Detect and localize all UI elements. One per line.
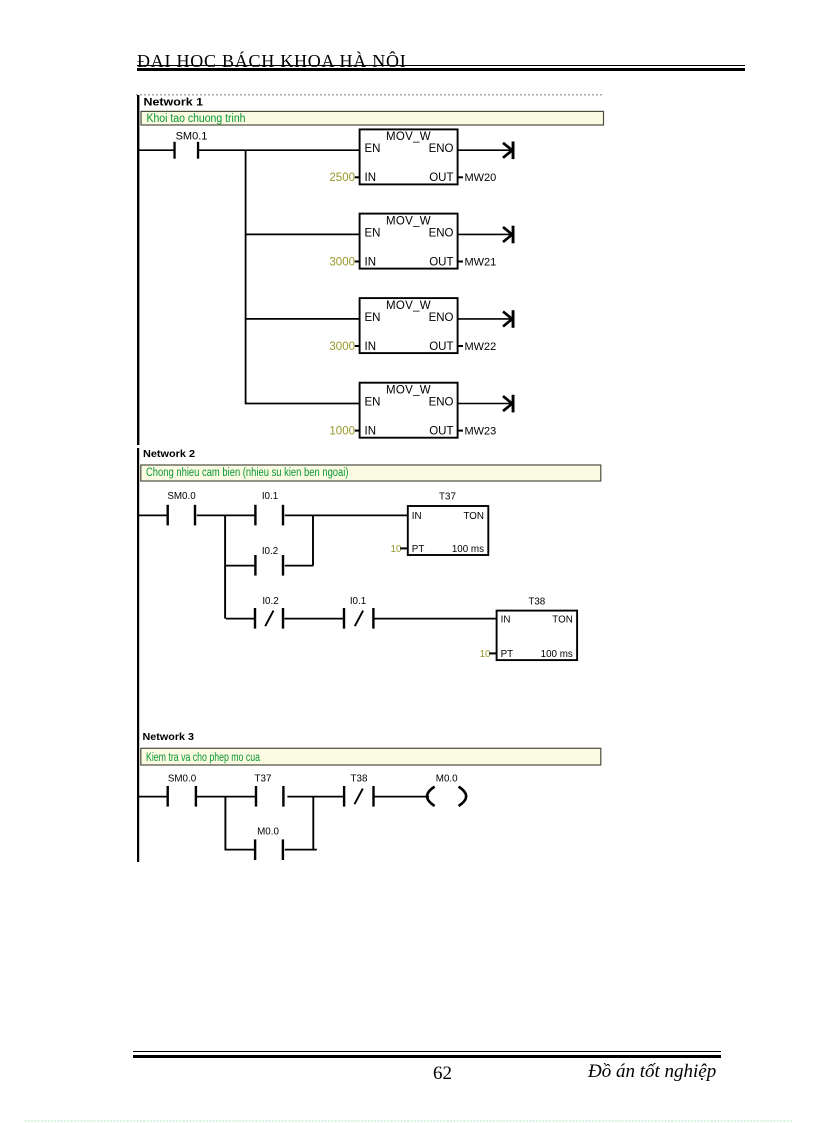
- contact T38 NC n3: [343, 786, 375, 807]
- branch vertical wire n2 left: [224, 515, 226, 618]
- svg-text:MW22: MW22: [465, 341, 497, 353]
- svg-text:OUT: OUT: [429, 341, 453, 353]
- branch vertical wire n3 right: [312, 797, 314, 850]
- wire contact T38 to coil M0.0: [374, 796, 429, 798]
- wire contact SM0.1 to MOV box 1: [199, 149, 360, 151]
- svg-text:I0.1: I0.1: [350, 596, 366, 607]
- wire rail to contact SM0.0 n3: [138, 796, 167, 798]
- contact SM0.0 n2: [167, 505, 197, 526]
- svg-text:I0.1: I0.1: [262, 491, 278, 502]
- svg-text:100 ms: 100 ms: [541, 649, 573, 660]
- svg-text:EN: EN: [365, 227, 381, 239]
- tick PT T38: [489, 652, 496, 654]
- svg-text:IN: IN: [365, 172, 377, 184]
- wire contact SM0.0 to contact I0.1: [197, 514, 256, 516]
- svg-text:EN: EN: [365, 312, 381, 324]
- bottom dotted separator: [0, 1114, 816, 1123]
- svg-text:Network 1: Network 1: [144, 97, 204, 109]
- contact I0.1 NC n2: [343, 608, 375, 629]
- svg-text:100 ms: 100 ms: [452, 544, 484, 555]
- svg-text:TON: TON: [552, 615, 573, 626]
- arrow terminator 2: [503, 226, 515, 244]
- branch vertical wire n3 left: [224, 797, 226, 850]
- svg-text:M0.0: M0.0: [257, 826, 279, 837]
- MOV_W box 1: [360, 129, 458, 184]
- svg-text:Network 3: Network 3: [143, 731, 195, 743]
- branch wire to MOV box 2: [245, 233, 360, 235]
- svg-text:M0.0: M0.0: [436, 774, 458, 785]
- contact M0.0 n3: [254, 839, 284, 860]
- svg-text:MOV_W: MOV_W: [386, 300, 431, 312]
- svg-text:MOV_W: MOV_W: [386, 215, 431, 227]
- svg-text:IN: IN: [501, 615, 511, 626]
- tick OUT box 2: [458, 261, 463, 263]
- svg-text:3000: 3000: [329, 256, 355, 268]
- wire branch to contact I0.2: [226, 565, 256, 567]
- timer box T38: [497, 611, 577, 661]
- svg-text:T37: T37: [255, 774, 272, 785]
- branch wire to MOV box 4: [245, 403, 360, 405]
- svg-text:ENO: ENO: [429, 227, 454, 239]
- svg-text:PT: PT: [501, 649, 514, 660]
- svg-text:Network 2: Network 2: [143, 448, 195, 460]
- svg-text:ENO: ENO: [429, 312, 454, 324]
- svg-text:Chong nhieu cam bien (nhieu su: Chong nhieu cam bien (nhieu su kien ben …: [146, 467, 349, 479]
- tick value to IN box 3: [355, 345, 360, 347]
- footer rule thick: [133, 1055, 721, 1059]
- svg-text:SM0.0: SM0.0: [167, 491, 196, 502]
- tick OUT box 1: [458, 176, 463, 178]
- arrow terminator 3: [503, 310, 515, 328]
- svg-text:MOV_W: MOV_W: [386, 131, 431, 143]
- contact T37 n3: [255, 786, 285, 807]
- header rule thick: [137, 68, 745, 71]
- network 1 block top dotted border: [136, 94, 604, 96]
- wire ENO box 3 to arrow: [458, 318, 511, 320]
- MOV_W box 3: [360, 298, 458, 353]
- branch vertical wire: [245, 150, 247, 403]
- contact SM0.1: [173, 142, 199, 159]
- wire contact T37 to contact T38: [287, 796, 344, 798]
- wire branch to contact M0.0 n3: [225, 849, 256, 851]
- svg-text:10: 10: [391, 544, 402, 555]
- contact I0.1 n2: [254, 505, 284, 526]
- svg-text:MW21: MW21: [465, 256, 497, 268]
- left power rail network 1: [137, 95, 139, 445]
- svg-text:T38: T38: [351, 774, 368, 785]
- parallel branch vertical wire n2 right: [312, 515, 314, 565]
- wire rail to contact SM0.1: [138, 149, 174, 151]
- svg-text:T37: T37: [439, 491, 456, 502]
- contact SM0.0 n3: [167, 786, 198, 807]
- contact I0.2 n2: [254, 555, 284, 576]
- tick OUT box 4: [458, 430, 463, 432]
- svg-text:SM0.0: SM0.0: [168, 774, 197, 785]
- svg-text:2500: 2500: [329, 172, 355, 184]
- svg-text:OUT: OUT: [429, 256, 453, 268]
- wire contact M0.0 to branch join n3: [285, 849, 317, 851]
- footer rule thin: [133, 1051, 721, 1052]
- MOV_W box 2: [360, 214, 458, 269]
- page number: [433, 1063, 452, 1085]
- arrow terminator 1: [503, 142, 515, 160]
- svg-text:EN: EN: [365, 397, 381, 409]
- wire branch to contact I0.2 NC: [226, 618, 254, 620]
- svg-text:IN: IN: [412, 511, 422, 522]
- wire ENO box 1 to arrow: [458, 149, 511, 151]
- svg-text:TON: TON: [463, 511, 484, 522]
- svg-text:MW23: MW23: [465, 426, 497, 438]
- header rule thin: [137, 65, 745, 66]
- svg-text:EN: EN: [365, 143, 381, 155]
- wire I0.2 NC to I0.1 NC: [284, 618, 343, 620]
- svg-text:SM0.1: SM0.1: [176, 131, 208, 143]
- tick value to IN box 1: [355, 176, 360, 178]
- svg-text:1000: 1000: [329, 426, 355, 438]
- left power rail networks 2 and 3: [137, 448, 139, 862]
- timer box T37: [408, 506, 489, 555]
- tick value to IN box 4: [355, 430, 360, 432]
- wire ENO box 4 to arrow: [458, 403, 511, 405]
- svg-text:T38: T38: [528, 597, 545, 608]
- svg-text:MW20: MW20: [465, 172, 497, 184]
- wire ENO box 2 to arrow: [458, 233, 511, 235]
- wire contact I0.2 to branch join: [285, 565, 313, 567]
- svg-text:IN: IN: [365, 341, 377, 353]
- svg-text:ENO: ENO: [429, 143, 454, 155]
- svg-text:I0.2: I0.2: [262, 596, 278, 607]
- svg-text:10: 10: [480, 649, 491, 660]
- svg-text:I0.2: I0.2: [262, 546, 278, 557]
- wire I0.1 NC to timer T38: [374, 618, 497, 620]
- svg-text:MOV_W: MOV_W: [386, 385, 431, 397]
- wire rail to contact SM0.0 n2: [138, 514, 167, 516]
- tick PT T37: [400, 547, 408, 549]
- branch wire to MOV box 3: [245, 318, 360, 320]
- svg-text:IN: IN: [365, 256, 377, 268]
- svg-text:OUT: OUT: [429, 172, 453, 184]
- network 1 comment bar: [141, 111, 604, 125]
- tick OUT box 3: [458, 345, 463, 347]
- tick value to IN box 2: [355, 261, 360, 263]
- wire contact SM0.0 to contact T37: [197, 796, 256, 798]
- contact I0.2 NC n2: [254, 608, 284, 629]
- svg-text:OUT: OUT: [429, 426, 453, 438]
- arrow terminator 4: [503, 395, 515, 413]
- output coil M0.0: [427, 787, 466, 806]
- svg-text:PT: PT: [412, 544, 425, 555]
- network 3 comment bar: [141, 748, 601, 765]
- page header title: [137, 51, 407, 72]
- footer right text: [588, 1061, 716, 1083]
- svg-text:3000: 3000: [329, 341, 355, 353]
- svg-text:IN: IN: [365, 426, 377, 438]
- svg-text:Khoi tao chuong trinh: Khoi tao chuong trinh: [147, 113, 246, 125]
- svg-text:ENO: ENO: [429, 397, 454, 409]
- network 2 comment bar: [141, 465, 601, 481]
- svg-text:Kiem tra va cho phep mo cua: Kiem tra va cho phep mo cua: [146, 752, 260, 764]
- MOV_W box 4: [360, 383, 458, 438]
- wire contact I0.1 to timer T37: [285, 514, 408, 516]
